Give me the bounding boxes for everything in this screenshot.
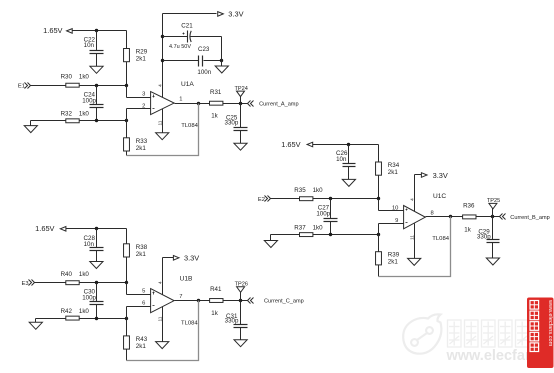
svg-text:TL084: TL084 (181, 320, 198, 326)
node junction A/R29 (125, 84, 128, 87)
svg-text:1k0: 1k0 (79, 271, 90, 278)
wire R31 to port (223, 103, 248, 105)
net 1.65V rail (U1C) (281, 140, 378, 149)
node junction A/R34 (377, 197, 380, 200)
svg-text:R42: R42 (61, 308, 73, 315)
svg-text:R29: R29 (136, 49, 148, 56)
capacitor C24 label (82, 92, 96, 105)
svg-text:1k0: 1k0 (313, 224, 324, 231)
decorative red watermark badge (527, 298, 554, 369)
node output junction (239, 102, 242, 105)
input port E3 (22, 280, 66, 287)
svg-text:R43: R43 (136, 336, 148, 343)
svg-text:11: 11 (157, 120, 163, 125)
capacitor C29 (487, 217, 500, 259)
svg-text:E2: E2 (258, 197, 265, 203)
svg-text:U1C: U1C (433, 193, 446, 200)
capacitor C23 (163, 56, 222, 67)
node junction B/C27 (329, 233, 332, 236)
wire R37 to feedback node (313, 234, 379, 236)
svg-text:2k1: 2k1 (136, 251, 147, 258)
wire output pin 7 (175, 294, 210, 301)
node junction A/C24 (95, 84, 98, 87)
svg-text:C21: C21 (181, 23, 193, 30)
node feedback tap (197, 299, 200, 302)
capacitor C23 label (197, 46, 211, 76)
svg-text:R33: R33 (136, 138, 148, 145)
resistor R32 (61, 111, 90, 123)
resistor R40 (61, 271, 90, 285)
ground under C21/C23 (215, 66, 228, 73)
capacitor C25 (234, 104, 248, 144)
wire R32 to feedback node (80, 120, 127, 122)
resistor R31 (210, 89, 223, 120)
ground at R32 input (24, 121, 65, 133)
svg-text:7: 7 (179, 294, 182, 300)
wire to pin - (379, 218, 404, 235)
resistor R43 (124, 319, 148, 361)
wire R41 to port (223, 300, 248, 302)
svg-text:10n: 10n (336, 156, 347, 163)
node output junction (239, 299, 242, 302)
resistor R39 (376, 235, 400, 277)
svg-text:Current_A_amp: Current_A_amp (259, 101, 299, 107)
capacitor C21 label (169, 23, 193, 50)
ground under pin 11 (156, 342, 169, 349)
node junction B/C30 (95, 317, 98, 320)
node junction rail/C22 (95, 29, 98, 32)
svg-text:1.65V: 1.65V (281, 140, 300, 149)
svg-text:11: 11 (157, 316, 163, 321)
node junction B/R39 (377, 233, 380, 236)
wire to pin - (127, 301, 151, 319)
output port Current_B_amp (500, 214, 550, 222)
wire R30 to op-amp (80, 85, 127, 87)
svg-text:2k1: 2k1 (388, 259, 399, 266)
svg-text:1k: 1k (464, 226, 471, 233)
svg-text:2k1: 2k1 (388, 169, 399, 176)
svg-text:3: 3 (142, 92, 145, 98)
pin 4 V+ (409, 175, 415, 212)
node junction 3.3V/C23 (161, 59, 164, 62)
ground under C26 (342, 179, 355, 186)
net 3.3V (U1C) (415, 171, 448, 212)
svg-text:100p: 100p (82, 294, 96, 301)
pin 11 V- (157, 307, 163, 342)
wire feedback loop (127, 301, 199, 361)
test point TP26 (235, 281, 248, 300)
ground under pin 11 (408, 258, 421, 265)
svg-text:E3: E3 (22, 281, 29, 287)
svg-text:TL084: TL084 (432, 236, 449, 242)
svg-text:2k1: 2k1 (136, 343, 147, 350)
svg-text:6: 6 (142, 301, 145, 307)
ground under C22 (90, 66, 103, 73)
svg-text:U1A: U1A (181, 81, 194, 88)
wire to pin - (127, 104, 151, 121)
resistor R37 (294, 224, 323, 236)
wire R42 to feedback node (80, 318, 127, 320)
svg-text:1k: 1k (211, 310, 218, 317)
svg-text:9: 9 (395, 218, 398, 224)
svg-text:R32: R32 (61, 111, 73, 118)
svg-text:C23: C23 (198, 46, 210, 53)
svg-text:11: 11 (409, 235, 415, 240)
node junction A/C27 (329, 197, 332, 200)
capacitor C31 label (225, 313, 239, 325)
svg-text:10: 10 (392, 205, 398, 211)
svg-text:Current_B_amp: Current_B_amp (510, 215, 550, 221)
resistor R29 (124, 31, 148, 86)
node junction rail/C26 (347, 143, 350, 146)
resistor R34 (376, 145, 400, 199)
output port Current_A_amp (248, 101, 299, 108)
wire output pin 8 (426, 210, 463, 216)
node feedback tap (449, 215, 452, 218)
resistor R41 (210, 286, 223, 317)
svg-text:2: 2 (142, 104, 145, 110)
svg-text:1k0: 1k0 (79, 73, 90, 80)
capacitor C24 (90, 86, 104, 121)
svg-text:3.3V: 3.3V (184, 253, 199, 262)
ground under C29 (486, 258, 499, 265)
svg-text:R31: R31 (210, 89, 222, 96)
resistor R36 (463, 203, 476, 234)
svg-text:1: 1 (179, 97, 182, 103)
node junction rail/C28 (95, 227, 98, 230)
svg-text:100p: 100p (316, 210, 330, 217)
op-amp U1C (404, 193, 450, 242)
capacitor C30 (90, 283, 104, 319)
svg-text:4: 4 (157, 84, 163, 87)
svg-text:U1B: U1B (180, 276, 193, 283)
net 1.65V rail (U1A) (43, 26, 126, 35)
ground under pin 11 (156, 133, 169, 140)
svg-text:2k1: 2k1 (136, 56, 147, 63)
svg-text:R41: R41 (210, 286, 222, 293)
capacitor C29 label (477, 229, 491, 241)
ground under C25 (234, 143, 247, 150)
node feedback tap (197, 102, 200, 105)
svg-text:330p: 330p (225, 119, 239, 126)
svg-text:R36: R36 (463, 203, 475, 210)
capacitor C27 label (316, 205, 330, 218)
wire C21 right leg down (221, 37, 223, 67)
node output junction (491, 215, 494, 218)
capacitor C22 (90, 31, 104, 67)
svg-text:www.elecfans.com: www.elecfans.com (547, 299, 553, 347)
svg-text:R37: R37 (294, 224, 306, 231)
svg-text:3.3V: 3.3V (433, 171, 448, 180)
resistor R38 (124, 229, 148, 283)
ground at R37 input (264, 235, 299, 248)
pin 4 V+ (157, 258, 163, 295)
svg-text:TL084: TL084 (181, 123, 198, 129)
svg-text:1k: 1k (211, 113, 218, 120)
decorative watermark logo (not labelled further) (403, 314, 554, 364)
resistor R30 (61, 73, 90, 87)
op-amp U1B (151, 276, 199, 327)
wire R36 to port (477, 216, 500, 218)
resistor R35 (294, 187, 323, 201)
wire to pin + (127, 86, 151, 98)
test point TP24 (235, 86, 248, 104)
capacitor C27 (324, 199, 338, 235)
net 3.3V (U1B) (163, 253, 200, 294)
node junction 3.3V/C21 (161, 35, 164, 38)
pin 11 V- (157, 109, 163, 133)
node junction A/R38 (125, 281, 128, 284)
wire output pin 1 (175, 97, 210, 104)
svg-text:10n: 10n (84, 42, 95, 49)
capacitor C30 label (82, 289, 96, 302)
svg-text:1k0: 1k0 (313, 187, 324, 194)
svg-text:Current_C_amp: Current_C_amp (264, 299, 304, 305)
node junction B/C24 (95, 119, 98, 122)
wire R35 to op-amp (313, 198, 379, 200)
capacitor C28 (90, 229, 104, 262)
resistor R42 (61, 308, 90, 320)
node junction C21/C23 right (220, 59, 223, 62)
wire to pin + (127, 283, 151, 295)
test point TP25 (487, 198, 500, 216)
node junction B/R43 (125, 317, 128, 320)
wire to pin + (379, 199, 404, 212)
ground at R42 input (29, 319, 65, 330)
svg-text:3.3V: 3.3V (228, 9, 243, 18)
op-amp U1A (151, 81, 199, 129)
svg-text:R34: R34 (388, 162, 400, 169)
svg-text:E1: E1 (18, 83, 25, 89)
ground under C31 (234, 340, 247, 347)
capacitor C31 (234, 301, 248, 340)
capacitor C21 (polarized) (163, 31, 222, 43)
node junction B/R33 (125, 119, 128, 122)
svg-text:100n: 100n (197, 69, 211, 76)
pin 11 V- (409, 224, 415, 259)
svg-text:R35: R35 (294, 187, 306, 194)
wire R40 to op-amp (80, 282, 127, 284)
pin 4 V+ (157, 14, 163, 98)
net 1.65V rail (U1B) (35, 224, 126, 233)
output port Current_C_amp (248, 298, 304, 305)
net 3.3V rail (U1A) (163, 9, 244, 18)
svg-text:1.65V: 1.65V (43, 26, 62, 35)
svg-text:1k0: 1k0 (79, 111, 90, 118)
svg-text:5: 5 (142, 289, 145, 295)
capacitor C26 label (336, 150, 348, 163)
svg-text:1k0: 1k0 (79, 308, 90, 315)
input port E1 (18, 83, 66, 90)
svg-text:330p: 330p (225, 318, 239, 325)
svg-text:1.65V: 1.65V (35, 224, 54, 233)
input port E2 (258, 196, 300, 203)
svg-text:4.7u 50V: 4.7u 50V (169, 44, 191, 50)
capacitor C28 label (84, 235, 96, 248)
svg-text:R39: R39 (388, 252, 400, 259)
resistor R33 (124, 121, 148, 156)
node junction A/C30 (95, 281, 98, 284)
svg-text:R38: R38 (136, 244, 148, 251)
svg-text:8: 8 (431, 210, 434, 216)
wire feedback loop (127, 104, 199, 156)
wire feedback loop (379, 217, 451, 277)
svg-text:R40: R40 (61, 271, 73, 278)
svg-text:2k1: 2k1 (136, 145, 147, 152)
capacitor C25 label (225, 115, 239, 127)
capacitor C22 label (84, 36, 96, 49)
ground under C28 (90, 262, 103, 269)
capacitor C26 (343, 145, 356, 180)
svg-text:R30: R30 (61, 73, 73, 80)
svg-text:100p: 100p (82, 97, 96, 104)
